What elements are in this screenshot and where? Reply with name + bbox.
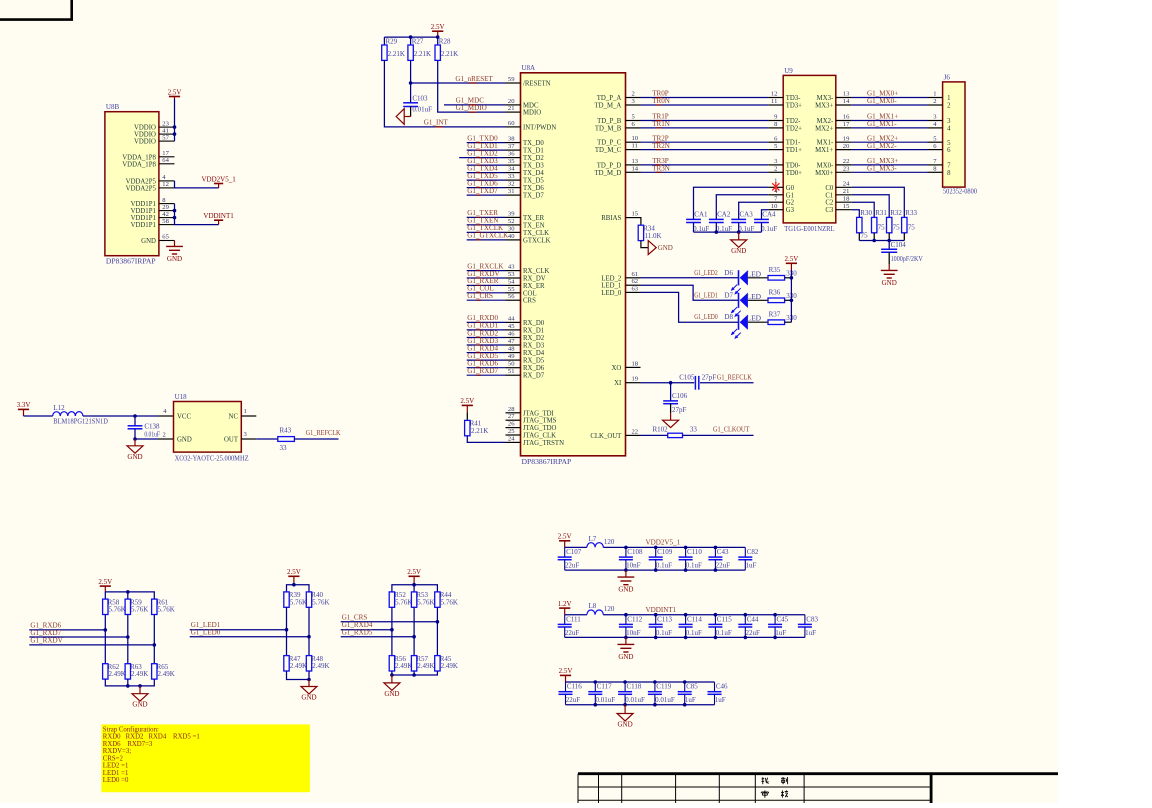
net label G1_REFCLK at R43 xyxy=(306,429,342,437)
wire bank 2 rail left xyxy=(565,614,587,616)
svg-text:63: 63 xyxy=(632,285,639,292)
svg-text:TD_M_A: TD_M_A xyxy=(594,103,621,110)
svg-text:RX_D3: RX_D3 xyxy=(523,343,545,350)
inductor L12 BLM18PG121SN1D xyxy=(53,404,108,426)
capacitor C103 0.01uF xyxy=(403,94,432,113)
resistor R28 2.21K xyxy=(435,38,458,61)
wire 2.5V to U8B VDDIO pins xyxy=(174,99,176,141)
junction C44 top xyxy=(744,613,748,617)
svg-text:G1_LED0: G1_LED0 xyxy=(694,313,718,321)
resistor R44 5.76K xyxy=(435,591,458,607)
IC U8A DP83867IRPAP xyxy=(521,64,626,466)
svg-text:RX_D5: RX_D5 xyxy=(523,358,545,365)
svg-text:CRS=2: CRS=2 xyxy=(103,755,124,762)
svg-text:1uF: 1uF xyxy=(775,629,786,637)
svg-text:20: 20 xyxy=(843,143,850,150)
junction C108 bottom xyxy=(624,568,628,572)
svg-text:C111: C111 xyxy=(566,615,581,623)
svg-text:C85: C85 xyxy=(686,683,698,691)
capacitor C105 27pF (series) xyxy=(679,374,716,390)
svg-text:JTAG_TMS: JTAG_TMS xyxy=(523,418,557,425)
capacitor CA2 0.1uF xyxy=(709,211,732,234)
svg-text:R30: R30 xyxy=(860,209,872,217)
svg-text:17: 17 xyxy=(162,150,169,157)
resistor R34 11.0K xyxy=(638,224,661,240)
svg-text:33: 33 xyxy=(690,426,698,434)
svg-text:19: 19 xyxy=(632,376,639,383)
svg-text:MX2+: MX2+ xyxy=(815,125,833,132)
svg-text:22uF: 22uF xyxy=(716,562,731,570)
wire CA3 bottom xyxy=(738,223,740,233)
resistor R102 33 xyxy=(653,426,698,438)
U8B pins with numbers xyxy=(122,120,174,245)
svg-text:2.49K: 2.49K xyxy=(312,662,329,670)
svg-text:GND: GND xyxy=(882,279,897,287)
svg-text:VDDA2P5: VDDA2P5 xyxy=(126,178,157,185)
svg-text:TR3N: TR3N xyxy=(652,165,670,173)
svg-text:2.21K: 2.21K xyxy=(414,50,431,58)
svg-text:64: 64 xyxy=(162,157,169,164)
power VDDINT1 at U8B xyxy=(203,212,234,225)
svg-text:R33: R33 xyxy=(905,209,917,217)
svg-text:57: 57 xyxy=(162,134,169,141)
svg-text:42: 42 xyxy=(162,211,169,218)
svg-text:TD_P_D: TD_P_D xyxy=(597,162,622,169)
resistor R56 2.49K xyxy=(389,655,412,671)
svg-text:LED: LED xyxy=(747,292,762,301)
svg-text:0.01uF: 0.01uF xyxy=(144,430,160,438)
svg-text:XI: XI xyxy=(614,380,622,387)
wire R34 bottom xyxy=(641,241,648,248)
junction R28 top xyxy=(436,35,440,39)
junction C112 top xyxy=(624,613,628,617)
svg-text:30: 30 xyxy=(508,225,515,232)
wire LED_2 to D6 xyxy=(641,277,739,279)
svg-text:61: 61 xyxy=(632,271,639,278)
junction net2 top xyxy=(292,583,296,587)
svg-text:5: 5 xyxy=(947,140,951,147)
net labels G1_MX0+ .. G1_MX3- xyxy=(867,90,898,173)
resistor R40 5.76K xyxy=(306,591,329,607)
wire CA1 bottom xyxy=(693,223,695,233)
net label G1_LED2 D6 xyxy=(694,269,761,279)
junction C115 top xyxy=(714,613,718,617)
wire rail to C104 xyxy=(888,241,890,250)
svg-text:G1_REFCLK: G1_REFCLK xyxy=(717,374,753,382)
wire D6 to R35 xyxy=(748,277,768,279)
wire LED_0 to D8 xyxy=(641,292,739,322)
capacitor C44 22uF xyxy=(738,615,760,638)
wire LED_1 to D7 xyxy=(641,285,739,300)
svg-text:MX1+: MX1+ xyxy=(815,147,833,154)
svg-text:C117: C117 xyxy=(597,683,612,691)
svg-text:0.1uF: 0.1uF xyxy=(716,629,732,637)
junction nRESET/R27 xyxy=(409,81,413,85)
svg-text:26: 26 xyxy=(508,421,515,428)
svg-text:D6: D6 xyxy=(724,269,733,277)
svg-text:TX_D1: TX_D1 xyxy=(523,148,544,155)
svg-text:D8: D8 xyxy=(724,313,733,321)
svg-text:2.49K: 2.49K xyxy=(131,670,148,678)
svg-text:15: 15 xyxy=(632,211,639,218)
IC U8B (DP83867IRPAP power pins) xyxy=(105,103,159,265)
capacitor C107 22uF xyxy=(558,547,582,570)
svg-text:18: 18 xyxy=(843,195,850,202)
net label G1_LED0 D8 xyxy=(694,313,761,323)
capacitor C82 1uF xyxy=(738,547,759,570)
wire G1_RXD6 row xyxy=(29,629,105,631)
svg-text:5.76K: 5.76K xyxy=(158,606,175,614)
junction VDDIO pin 23 xyxy=(173,125,177,129)
svg-text:G1_CLKOUT: G1_CLKOUT xyxy=(713,426,750,434)
svg-text:TD2+: TD2+ xyxy=(786,125,802,132)
svg-text:22uF: 22uF xyxy=(565,629,580,637)
svg-text:47: 47 xyxy=(508,338,515,345)
wire R28 to MDIO row xyxy=(438,60,506,112)
junction C138/GND wire xyxy=(133,437,137,441)
capacitor C115 0.1uF xyxy=(708,615,732,638)
wire C104 bottom xyxy=(888,252,890,264)
svg-text:27pF: 27pF xyxy=(702,374,717,382)
U8A left pin stubs, numbers and names xyxy=(506,76,565,447)
wire 2.5V rail to pullups xyxy=(384,36,437,38)
svg-text:C45: C45 xyxy=(777,615,789,623)
wire G1_CRS row xyxy=(341,621,438,623)
ground under C138 xyxy=(127,439,143,461)
wires U9 MX to J6 xyxy=(852,98,928,173)
wire net3 bottom rail xyxy=(392,671,438,675)
svg-text:VDDA_1P8: VDDA_1P8 xyxy=(122,161,156,168)
svg-text:GND: GND xyxy=(141,238,156,245)
capacitor C119 0.01uF xyxy=(648,682,675,705)
resistor R59 5.76K xyxy=(125,598,148,614)
svg-text:LED: LED xyxy=(747,269,762,278)
svg-text:12: 12 xyxy=(162,181,169,188)
net label VDD2V5_1 xyxy=(646,539,681,547)
svg-text:INT/PWDN: INT/PWDN xyxy=(523,124,556,131)
svg-text:14: 14 xyxy=(843,98,850,105)
svg-text:L12: L12 xyxy=(53,404,65,412)
junction C117 bottom xyxy=(594,703,598,707)
svg-text:2.5V: 2.5V xyxy=(168,88,182,96)
svg-text:GND: GND xyxy=(127,453,142,461)
svg-text:C110: C110 xyxy=(687,548,702,556)
svg-text:C116: C116 xyxy=(567,683,582,691)
wire RBIAS xyxy=(640,218,642,226)
title block table xyxy=(578,774,1058,803)
svg-text:40: 40 xyxy=(508,233,515,240)
svg-text:TR1N: TR1N xyxy=(652,120,670,128)
capacitor C113 0.1uF xyxy=(649,615,673,638)
net label G1_RXDV xyxy=(30,637,63,645)
wire XI xyxy=(641,382,695,384)
svg-text:2.49K: 2.49K xyxy=(109,670,126,678)
svg-text:15: 15 xyxy=(843,203,850,210)
svg-text:CA4: CA4 xyxy=(762,211,776,219)
junction C113 top xyxy=(654,613,658,617)
junction C108 top xyxy=(624,546,628,550)
svg-text:C115: C115 xyxy=(717,615,732,623)
resistor R29 2.21K xyxy=(382,38,405,61)
svg-text:VDD2V5_1: VDD2V5_1 xyxy=(201,175,236,183)
svg-text:20: 20 xyxy=(508,98,515,105)
power 2.5V network2 xyxy=(287,568,301,585)
svg-text:22uF: 22uF xyxy=(565,562,580,570)
junction LED1/R39 xyxy=(285,628,289,632)
svg-text:75: 75 xyxy=(908,223,916,231)
svg-text:23: 23 xyxy=(162,120,169,127)
svg-text:VDDIO: VDDIO xyxy=(134,125,156,132)
svg-text:24: 24 xyxy=(843,181,850,188)
svg-text:C103: C103 xyxy=(412,94,428,102)
wire U9 C1 to R32 xyxy=(852,195,890,218)
svg-text:MX3+: MX3+ xyxy=(815,103,833,110)
svg-text:R29: R29 xyxy=(386,38,398,46)
junction LED rail D6 xyxy=(790,276,794,280)
capacitor C46 1uF xyxy=(708,682,729,705)
svg-text:C113: C113 xyxy=(657,615,672,623)
svg-text:VDD1P1: VDD1P1 xyxy=(131,201,156,208)
svg-text:1uF: 1uF xyxy=(746,562,757,570)
net labels TR0P-TR3N xyxy=(652,90,670,173)
transformer U9 TG1G-E001NZRL xyxy=(783,67,836,233)
svg-text:G2: G2 xyxy=(786,200,795,207)
svg-text:RX_D0: RX_D0 xyxy=(523,320,545,327)
svg-text:C109: C109 xyxy=(657,548,673,556)
svg-text:RX_D2: RX_D2 xyxy=(523,335,545,342)
svg-text:LED_2: LED_2 xyxy=(601,275,622,282)
capacitor C45 1uF xyxy=(768,615,789,638)
resistor R35 330 xyxy=(768,266,797,280)
wire R30-R33 bottom rail xyxy=(859,240,904,242)
svg-text:LED_0: LED_0 xyxy=(601,290,622,297)
svg-text:J6: J6 xyxy=(944,73,951,81)
svg-text:GND: GND xyxy=(177,437,192,444)
power 2.5V network3 xyxy=(407,568,421,585)
wire net3 col1 xyxy=(391,607,393,655)
svg-text:29: 29 xyxy=(162,204,169,211)
svg-text:TD_P_B: TD_P_B xyxy=(597,118,622,125)
svg-text:VDDINT1: VDDINT1 xyxy=(646,606,677,614)
svg-text:RBIAS: RBIAS xyxy=(601,215,621,222)
ground bank 2 xyxy=(618,637,635,661)
svg-text:CA2: CA2 xyxy=(717,211,731,219)
net highlight segments xyxy=(435,83,477,127)
capacitor C116 22uF xyxy=(559,682,583,705)
junction C138/VCC xyxy=(133,414,137,418)
wire net3 top rail xyxy=(392,585,438,592)
svg-text:0.1uF: 0.1uF xyxy=(761,225,777,233)
wire net3 col2 bottom xyxy=(413,671,415,675)
svg-text:2.5V: 2.5V xyxy=(407,568,421,576)
wire U9 C0 to R33 xyxy=(852,187,905,217)
inductor L8 120 xyxy=(587,602,615,615)
capacitor C83 1uF xyxy=(798,615,819,638)
wire net3 col3 xyxy=(436,607,438,655)
svg-text:C114: C114 xyxy=(687,615,702,623)
ground bank 1 xyxy=(618,570,635,594)
U9 left pins TD xyxy=(768,91,802,177)
svg-text:18: 18 xyxy=(632,360,639,367)
resistor R58 5.76K xyxy=(103,598,126,614)
svg-text:MX0-: MX0- xyxy=(817,162,834,169)
wire CLK_OUT to R102 xyxy=(641,434,668,436)
svg-text:0.1uF: 0.1uF xyxy=(686,562,702,570)
svg-text:TX_D7: TX_D7 xyxy=(523,193,544,200)
capacitor C117 0.01uF xyxy=(588,682,615,705)
wire bank 3 rail xyxy=(566,681,715,683)
svg-text:G1_MX2-: G1_MX2- xyxy=(867,142,897,150)
svg-text:G1_LED1: G1_LED1 xyxy=(694,291,718,299)
wire bank 1 rail xyxy=(603,546,745,548)
U8A right pin stubs, numbers and names xyxy=(590,91,640,440)
wire G1_RXD4 row xyxy=(341,629,392,631)
svg-text:2.5V: 2.5V xyxy=(559,667,573,675)
capacitor CA3 0.1uF xyxy=(731,211,754,234)
svg-text:21: 21 xyxy=(843,188,850,195)
resistor R48 2.49K xyxy=(306,655,329,671)
svg-text:2: 2 xyxy=(632,91,635,98)
junction C43 top xyxy=(714,546,718,550)
svg-text:65: 65 xyxy=(162,234,169,241)
svg-text:GND: GND xyxy=(618,653,633,661)
wire C105 to REFCLK xyxy=(700,382,754,384)
power 1.2V bank 2 xyxy=(558,600,572,615)
svg-text:G1_nRESET: G1_nRESET xyxy=(455,75,493,83)
svg-text:VDD1P1: VDD1P1 xyxy=(131,222,156,229)
svg-text:13: 13 xyxy=(632,158,639,165)
resistor R27 2.21K xyxy=(408,38,431,61)
svg-text:2: 2 xyxy=(947,103,951,110)
svg-text:VDD1P1: VDD1P1 xyxy=(131,215,156,222)
svg-text:C44: C44 xyxy=(747,615,759,623)
svg-text:GND: GND xyxy=(618,586,633,594)
svg-text:2: 2 xyxy=(933,98,936,105)
U9 G0-G3 pins xyxy=(768,178,794,215)
wire C103 bottom xyxy=(410,107,412,117)
svg-text:10: 10 xyxy=(771,203,778,210)
resistor R41 2.21K xyxy=(465,420,489,436)
capacitor C104 1000pF/2KV xyxy=(881,241,923,263)
wire G1_LED0 row xyxy=(190,636,309,638)
net label G1_CRS xyxy=(342,613,368,621)
capacitor C109 0.1uF xyxy=(649,547,673,570)
resistor R61 5.76K xyxy=(152,598,175,614)
junction C109 bottom xyxy=(654,568,658,572)
LED D8 xyxy=(731,315,748,340)
svg-text:C119: C119 xyxy=(656,683,671,691)
capacitor C43 22uF xyxy=(708,547,730,570)
svg-text:TX_D5: TX_D5 xyxy=(523,178,544,185)
wire R27 to nRESET and C103 xyxy=(410,60,412,102)
wire R27 top stub xyxy=(410,37,412,45)
junction C104 rail xyxy=(887,239,891,243)
svg-text:G1_GTXCLK: G1_GTXCLK xyxy=(467,232,509,240)
ground arrow at R34 xyxy=(648,241,673,255)
svg-text:21: 21 xyxy=(508,105,515,112)
svg-text:G1_CRS: G1_CRS xyxy=(467,292,493,300)
wire U9 G1 to CA2 xyxy=(716,195,768,220)
U9 C0-C3 pins xyxy=(825,181,851,215)
wire CA2 bottom xyxy=(715,223,717,233)
svg-text:2.21K: 2.21K xyxy=(441,50,458,58)
junction C110 bottom xyxy=(684,568,688,572)
svg-text:U9: U9 xyxy=(784,67,793,75)
svg-text:C83: C83 xyxy=(806,615,818,623)
svg-text:0.01uF: 0.01uF xyxy=(596,696,616,704)
svg-text:17: 17 xyxy=(843,121,850,128)
svg-text:R27: R27 xyxy=(412,38,424,46)
svg-text:R43: R43 xyxy=(280,427,292,435)
junction LED rail D7 xyxy=(790,299,794,303)
svg-text:75: 75 xyxy=(893,223,901,231)
svg-text:2.49K: 2.49K xyxy=(441,662,458,670)
resistor R32 75 xyxy=(887,209,903,233)
svg-text:LED0 =0: LED0 =0 xyxy=(103,777,129,784)
wire GND stub xyxy=(158,438,174,440)
svg-text:R37: R37 xyxy=(769,311,781,319)
svg-text:LED1 =1: LED1 =1 xyxy=(103,770,129,777)
svg-text:VDD2V5_1: VDD2V5_1 xyxy=(646,539,681,547)
junction RXD5/R53 xyxy=(412,635,416,639)
svg-text:51: 51 xyxy=(508,368,515,375)
junction VDDIO pin 41 xyxy=(173,132,177,136)
wire L12 to U18 VCC xyxy=(83,415,158,417)
svg-text:GND: GND xyxy=(658,244,673,252)
junction C110 top xyxy=(684,546,688,550)
junction C118 top xyxy=(623,680,627,684)
svg-text:32: 32 xyxy=(508,181,515,188)
resistor R65 2.49K xyxy=(152,663,175,679)
svg-text:58: 58 xyxy=(162,218,169,225)
svg-text:41: 41 xyxy=(162,127,169,134)
svg-text:TX_CLK: TX_CLK xyxy=(523,230,549,237)
svg-text:34: 34 xyxy=(508,166,515,173)
resistor R63 2.49K xyxy=(125,663,148,679)
svg-text:VDDA_1P8: VDDA_1P8 xyxy=(122,154,156,161)
U9 right pins MX xyxy=(815,91,852,177)
svg-text:0.01uF: 0.01uF xyxy=(625,696,645,704)
resistor R57 2.49K xyxy=(411,655,434,671)
svg-text:TX_D0: TX_D0 xyxy=(523,140,544,147)
svg-text:C112: C112 xyxy=(627,615,642,623)
svg-text:1: 1 xyxy=(933,91,936,98)
junction net1 gnd xyxy=(138,684,142,688)
ground at U8B pin 65 xyxy=(166,241,183,264)
svg-text:502352-0800: 502352-0800 xyxy=(943,188,977,196)
svg-text:LED2 =1: LED2 =1 xyxy=(103,763,129,770)
svg-text:28: 28 xyxy=(508,406,515,413)
svg-text:JTAG_TRSTN: JTAG_TRSTN xyxy=(523,440,564,447)
svg-text:49: 49 xyxy=(508,353,515,360)
svg-text:TD_M_C: TD_M_C xyxy=(595,147,622,154)
ground under C104 xyxy=(881,264,898,287)
svg-text:19: 19 xyxy=(843,135,850,142)
svg-text:60: 60 xyxy=(508,120,515,127)
wire MDC xyxy=(444,104,506,106)
no-connect X on G0 xyxy=(772,182,779,192)
svg-text:75: 75 xyxy=(878,223,886,231)
svg-text:RXD0 RXD2 RXD4 RXD5 =1: RXD0 RXD2 RXD4 RXD5 =1 xyxy=(103,734,200,741)
wire net2 col1 xyxy=(286,607,288,655)
net label G1_LED1 D7 xyxy=(694,291,761,301)
svg-text:/RESETN: /RESETN xyxy=(523,81,551,88)
svg-text:TD_M_D: TD_M_D xyxy=(594,170,621,177)
svg-text:4: 4 xyxy=(947,126,951,133)
junction VDD1P1 pin 42 xyxy=(173,216,177,220)
svg-text:C108: C108 xyxy=(627,548,643,556)
svg-text:14: 14 xyxy=(632,165,639,172)
